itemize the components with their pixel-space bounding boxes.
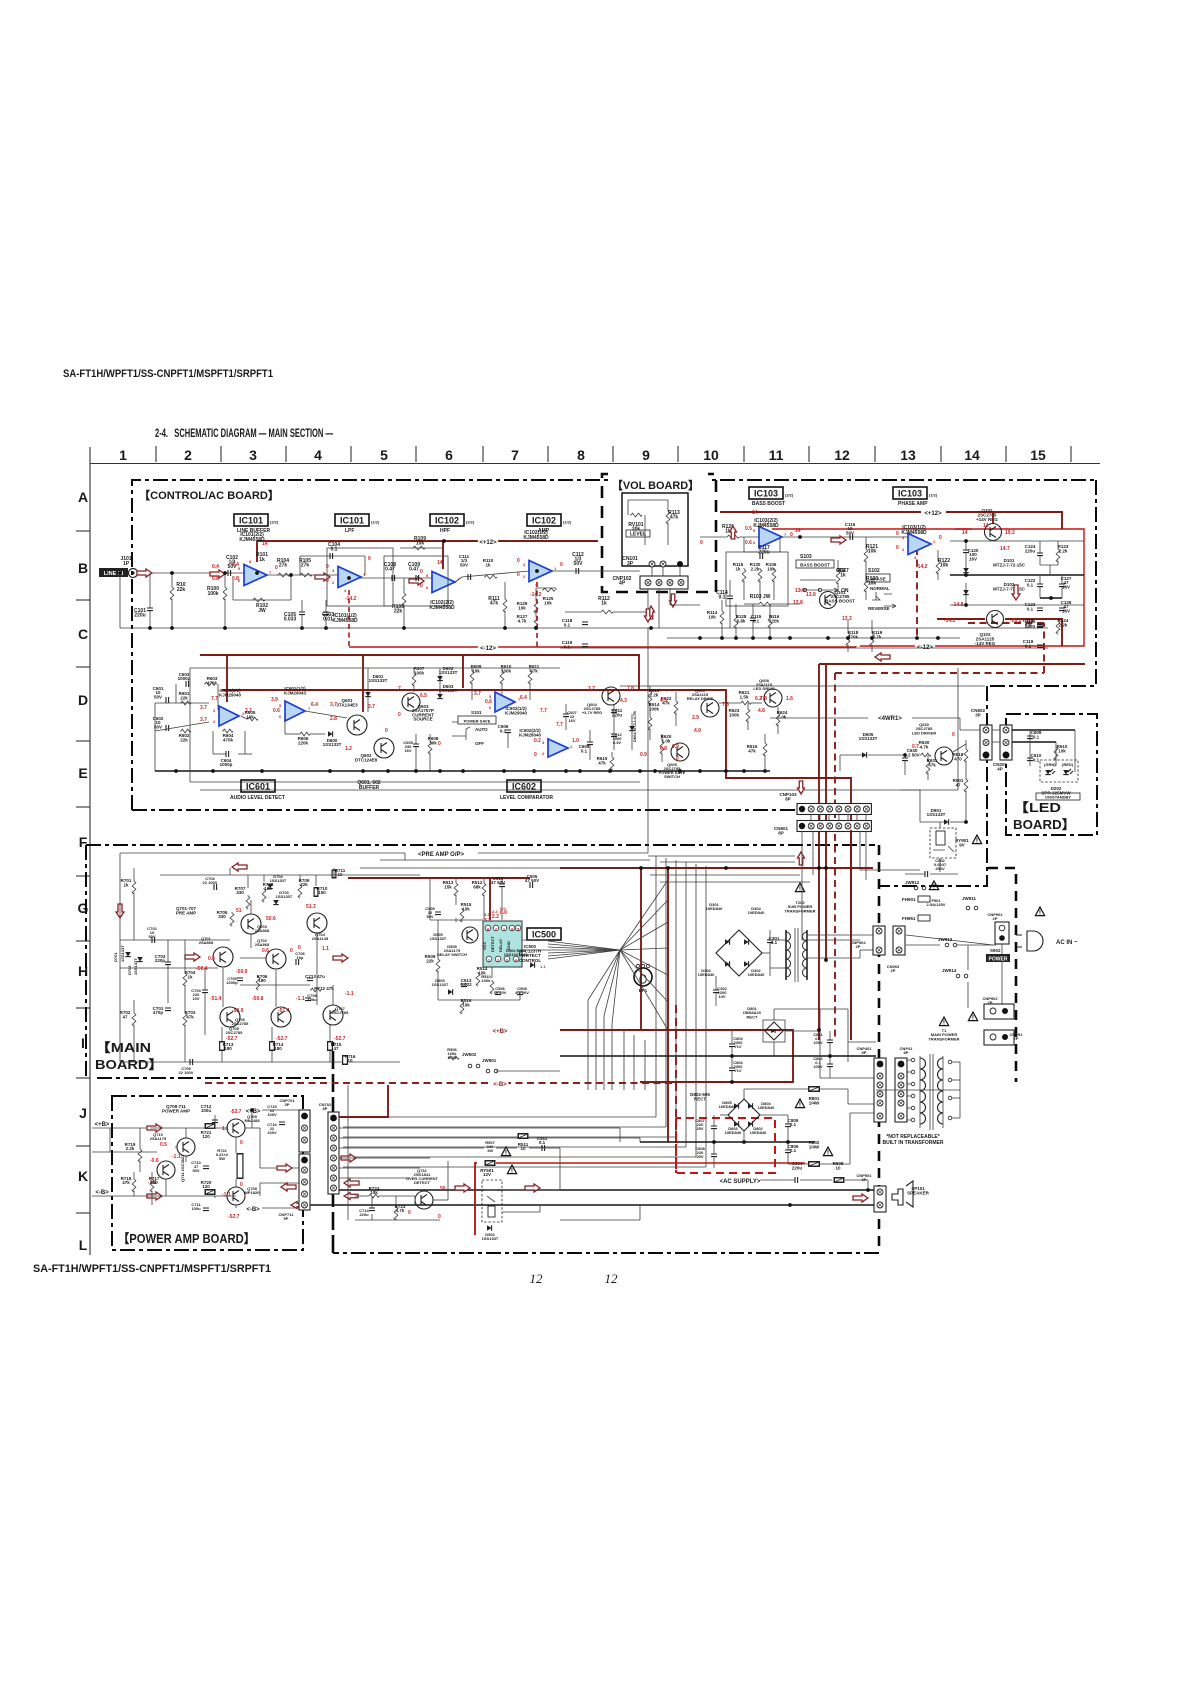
bridge rectifier D802-805 bbox=[728, 1099, 760, 1131]
svg-text:2.2k: 2.2k bbox=[1059, 622, 1068, 627]
svg-text:!: ! bbox=[505, 1150, 507, 1157]
resistor R109 bbox=[400, 547, 443, 549]
resistor R604 bbox=[222, 729, 233, 733]
svg-text:PRE AMP: PRE AMP bbox=[176, 911, 196, 916]
capacitor C607 bbox=[563, 714, 569, 717]
relay wires bbox=[939, 822, 941, 828]
op-amp IC103 1/2 bbox=[908, 534, 931, 555]
svg-text:KJM29040: KJM29040 bbox=[505, 710, 528, 715]
svg-text:0.1: 0.1 bbox=[790, 1148, 797, 1153]
svg-text:10k: 10k bbox=[462, 906, 470, 911]
svg-text:0: 0 bbox=[298, 945, 301, 951]
resistor R516 bbox=[460, 1000, 464, 1014]
ic103(1/2) label box bbox=[893, 487, 927, 499]
resistor R704 bbox=[183, 972, 187, 986]
resistor R630 bbox=[920, 753, 931, 757]
svg-text:10p: 10p bbox=[297, 955, 304, 960]
svg-text:4.8: 4.8 bbox=[758, 708, 765, 714]
svg-text:0.1: 0.1 bbox=[581, 748, 588, 753]
vol board border bbox=[602, 474, 716, 592]
svg-text:DELAY SWITCH: DELAY SWITCH bbox=[437, 952, 467, 957]
op-amp IC601 1/2 bbox=[285, 701, 305, 721]
svg-text:【VOL BOARD】: 【VOL BOARD】 bbox=[612, 479, 699, 492]
svg-text:2SC2785: 2SC2785 bbox=[232, 1021, 249, 1026]
svg-text:S103: S103 bbox=[800, 554, 812, 560]
svg-text:1/4W: 1/4W bbox=[447, 1055, 457, 1060]
svg-text:14: 14 bbox=[262, 541, 268, 547]
svg-text:1.2: 1.2 bbox=[345, 746, 352, 752]
capacitor C114 bbox=[727, 596, 733, 599]
resistor R723 bbox=[394, 1206, 398, 1220]
svg-text:LEVEL COMPARATOR: LEVEL COMPARATOR bbox=[500, 795, 553, 801]
resistor R623 bbox=[746, 708, 750, 722]
resistor R118 bbox=[846, 632, 850, 646]
svg-text:LEVEL: LEVEL bbox=[630, 532, 646, 538]
transistor Q605 power save switch bbox=[671, 743, 689, 761]
svg-text:0.1: 0.1 bbox=[753, 618, 760, 623]
svg-text:POWER SAVE: POWER SAVE bbox=[464, 719, 491, 724]
resistor R129 R127 R125 bbox=[534, 600, 538, 613]
capacitor C509 bbox=[435, 912, 441, 915]
svg-text:7: 7 bbox=[398, 686, 401, 692]
speaker SP101 bbox=[892, 1189, 903, 1205]
svg-text:100u: 100u bbox=[201, 1108, 212, 1113]
ic602 label box bbox=[507, 780, 541, 792]
transistor Q630 led driver bbox=[935, 747, 953, 765]
wire s902 bbox=[1001, 944, 1003, 954]
svg-text:2SC2785: 2SC2785 bbox=[226, 1030, 243, 1035]
svg-text:250V: 250V bbox=[935, 866, 945, 871]
arrow left -12 bbox=[875, 653, 890, 661]
svg-text:2SA868: 2SA868 bbox=[255, 942, 270, 947]
resistor R108 bbox=[402, 592, 406, 606]
svg-text:BOARD】: BOARD】 bbox=[95, 1057, 163, 1072]
svg-text:C713 47u: C713 47u bbox=[305, 974, 325, 979]
svg-text:0.47: 0.47 bbox=[385, 567, 395, 573]
wire bus supply bbox=[560, 1055, 876, 1057]
wire rows g horizontals bbox=[650, 874, 800, 876]
svg-text:BASS BOOST: BASS BOOST bbox=[825, 598, 855, 603]
transistor Q103 -14V reg bbox=[987, 611, 1004, 628]
svg-text:1SS133T: 1SS133T bbox=[430, 936, 447, 941]
capacitor C709 bbox=[190, 1059, 193, 1065]
resistor R609 bbox=[470, 670, 474, 684]
svg-text:IC601: IC601 bbox=[246, 782, 270, 792]
svg-text:1.1: 1.1 bbox=[222, 1126, 229, 1132]
zener D101 bbox=[963, 568, 969, 573]
svg-text:0.6: 0.6 bbox=[262, 948, 269, 954]
svg-text:7.7: 7.7 bbox=[556, 722, 563, 728]
svg-text:S902: S902 bbox=[990, 948, 1001, 953]
svg-text:RECT: RECT bbox=[747, 1014, 758, 1019]
svg-text:0.8: 0.8 bbox=[660, 746, 667, 752]
svg-text:4.7k: 4.7k bbox=[920, 744, 929, 749]
svg-text:-14.2: -14.2 bbox=[944, 618, 956, 624]
svg-text:0.1: 0.1 bbox=[1033, 757, 1040, 762]
op-amp IC101 1/2 bbox=[338, 567, 361, 588]
junction dots rails bbox=[666, 866, 670, 870]
svg-text:10ED840: 10ED840 bbox=[698, 972, 715, 977]
svg-text:1.6: 1.6 bbox=[786, 696, 793, 702]
svg-text:3TA134E3: 3TA134E3 bbox=[336, 702, 358, 707]
svg-text:220u: 220u bbox=[134, 613, 145, 619]
resistor R611 bbox=[528, 670, 532, 684]
connector CN903 bbox=[893, 926, 905, 955]
resistor R618 bbox=[964, 748, 968, 762]
resistor R602 bbox=[180, 729, 191, 733]
capacitor C508 bbox=[517, 992, 523, 995]
resistor R722 box bbox=[237, 1153, 244, 1179]
svg-text:RECT: RECT bbox=[694, 1097, 707, 1102]
capacitor C604 bbox=[226, 751, 229, 757]
svg-text:S101: S101 bbox=[471, 710, 482, 715]
svg-text:0.1: 0.1 bbox=[564, 622, 571, 627]
svg-text:15k: 15k bbox=[444, 884, 452, 889]
svg-text:1/4W: 1/4W bbox=[809, 1100, 820, 1105]
svg-text:AUDIO LEVEL DETECT: AUDIO LEVEL DETECT bbox=[230, 795, 285, 801]
svg-text:MP1820: MP1820 bbox=[245, 1190, 261, 1195]
svg-text:1.1: 1.1 bbox=[540, 964, 546, 969]
resistor R123 bbox=[1056, 548, 1060, 562]
svg-text:16V: 16V bbox=[969, 556, 977, 561]
resistor R706 bbox=[256, 976, 260, 990]
svg-text:0: 0 bbox=[240, 1140, 243, 1146]
capacitor C506 bbox=[495, 992, 501, 995]
svg-text:47k: 47k bbox=[598, 760, 606, 765]
ic500 chip bbox=[483, 921, 522, 967]
svg-text:0.0: 0.0 bbox=[500, 906, 506, 911]
potentiometer RV101 bbox=[630, 513, 642, 517]
wire ac chain bbox=[906, 935, 993, 945]
svg-text:<+B>: <+B> bbox=[493, 1029, 508, 1035]
svg-text:-1.1: -1.1 bbox=[222, 1192, 231, 1198]
wire cn702 col bbox=[347, 1085, 349, 1220]
transistor Q604 +3.7 reg bbox=[602, 687, 620, 705]
resistor R114 bbox=[720, 610, 724, 624]
capacitor C513 bbox=[461, 984, 467, 987]
svg-text:4P: 4P bbox=[997, 766, 1003, 771]
stage boxes bbox=[327, 548, 393, 606]
svg-text:LINE BUFFER: LINE BUFFER bbox=[237, 528, 270, 534]
svg-text:10ED840: 10ED840 bbox=[748, 972, 765, 977]
svg-text:SWITCH: SWITCH bbox=[664, 774, 680, 779]
net +B right bbox=[245, 1107, 262, 1115]
svg-text:6.8k: 6.8k bbox=[737, 618, 746, 623]
svg-text:470: 470 bbox=[954, 756, 962, 761]
svg-text:100k: 100k bbox=[482, 978, 492, 983]
svg-text:!: ! bbox=[511, 1168, 513, 1175]
signal arrow mid bbox=[831, 536, 846, 544]
svg-text:47k: 47k bbox=[928, 762, 936, 767]
bridge rectifier D301-D304 bbox=[716, 930, 762, 976]
svg-text:KJM4558D: KJM4558D bbox=[523, 535, 549, 541]
transistor Q708 bbox=[227, 1187, 245, 1205]
resistor R116 bbox=[768, 614, 772, 628]
ac supply red dashed box bbox=[676, 1005, 775, 1173]
ic101 label box bbox=[234, 514, 268, 526]
svg-text:10ED840: 10ED840 bbox=[758, 1105, 775, 1110]
led board border bbox=[1006, 714, 1097, 835]
svg-text:1SS133T 22k: 1SS133T 22k bbox=[504, 952, 529, 957]
capacitor C806 bbox=[785, 1150, 791, 1153]
svg-text:180: 180 bbox=[274, 1046, 282, 1051]
ac inlet border bbox=[988, 868, 1016, 1082]
svg-text:10k: 10k bbox=[246, 714, 254, 719]
warning triangle ac bbox=[1035, 907, 1044, 916]
op-amp IC602 1/2 bbox=[495, 692, 515, 712]
arrow left preamp bbox=[232, 863, 247, 871]
capacitor C505 bbox=[530, 882, 533, 888]
svg-text:0: 0 bbox=[896, 545, 899, 551]
svg-text:3.7: 3.7 bbox=[200, 705, 207, 711]
svg-text:12: 12 bbox=[605, 1271, 619, 1286]
connector J101 bbox=[129, 569, 138, 578]
capacitor C608 bbox=[587, 742, 593, 745]
grid column ticks bbox=[155, 446, 157, 462]
svg-text:0.1: 0.1 bbox=[500, 728, 507, 733]
svg-text:3.7: 3.7 bbox=[588, 686, 595, 692]
connector CNP711 bbox=[299, 1154, 310, 1210]
resistor R104 bbox=[277, 573, 290, 577]
svg-text:1k: 1k bbox=[123, 882, 129, 887]
resistor R112 bbox=[600, 610, 613, 614]
capacitor C103 bbox=[323, 612, 329, 615]
svg-text:RELAY DRIVE: RELAY DRIVE bbox=[687, 696, 714, 701]
svg-text:100V: 100V bbox=[813, 1040, 823, 1045]
svg-text:1.0k: 1.0k bbox=[778, 714, 787, 719]
svg-text:27k: 27k bbox=[279, 563, 288, 569]
wire net -12 row C bbox=[478, 644, 498, 652]
capacitor C102 bbox=[228, 570, 231, 576]
svg-text:0.1: 0.1 bbox=[1027, 606, 1034, 611]
arrows relay bbox=[455, 1184, 470, 1192]
svg-text:!: ! bbox=[976, 838, 978, 845]
maroon bus to power section bbox=[819, 663, 1085, 665]
capacitor C803 bbox=[729, 1044, 735, 1047]
resistor R724 bbox=[368, 1194, 379, 1198]
svg-text:Q711 2SC3823: Q711 2SC3823 bbox=[180, 1154, 185, 1182]
svg-text:16V: 16V bbox=[1062, 608, 1070, 613]
wire t2 out bbox=[360, 577, 432, 579]
resistor R615 bbox=[610, 756, 614, 770]
transformer pins bbox=[911, 1058, 915, 1062]
svg-text:2SA868: 2SA868 bbox=[199, 940, 214, 945]
svg-text:JW911: JW911 bbox=[962, 896, 977, 901]
resistor R708 bbox=[262, 888, 266, 902]
arrow down left bbox=[116, 904, 124, 918]
svg-text:!: ! bbox=[972, 1015, 974, 1022]
svg-text:7.7: 7.7 bbox=[211, 696, 218, 702]
resistor R608 bbox=[428, 740, 432, 754]
arrow speaker bbox=[853, 1194, 868, 1202]
resistor R128 bbox=[734, 614, 738, 628]
svg-text:LPF: LPF bbox=[345, 528, 354, 534]
diode D901 wire bbox=[965, 800, 967, 822]
svg-text:0: 0 bbox=[398, 712, 401, 718]
arrow up vol bbox=[730, 526, 737, 539]
svg-text:0.1: 0.1 bbox=[1025, 643, 1032, 648]
svg-text:0: 0 bbox=[534, 752, 537, 758]
svg-text:0: 0 bbox=[240, 1182, 243, 1188]
svg-text:22k: 22k bbox=[177, 587, 186, 593]
svg-text:ON/STANDBY: ON/STANDBY bbox=[1045, 795, 1071, 800]
svg-text:14.7: 14.7 bbox=[1000, 546, 1010, 552]
svg-text:0: 0 bbox=[952, 732, 955, 738]
resistor R513 bbox=[454, 882, 458, 896]
svg-text:【POWER AMP BOARD】: 【POWER AMP BOARD】 bbox=[118, 1231, 255, 1246]
resistor R117 bbox=[836, 570, 840, 584]
svg-text:50V: 50V bbox=[148, 934, 155, 939]
svg-text:10k: 10k bbox=[370, 1190, 378, 1195]
svg-text:2P: 2P bbox=[891, 968, 896, 973]
svg-text:1P: 1P bbox=[123, 561, 130, 567]
maroon row D supply rail bbox=[200, 655, 639, 690]
power amp wires bbox=[150, 1127, 227, 1129]
svg-text:220k: 220k bbox=[769, 618, 780, 623]
resistor R605 bbox=[247, 717, 258, 721]
svg-text:3.7: 3.7 bbox=[330, 702, 337, 708]
capacitor C706 bbox=[296, 959, 299, 965]
svg-text:10k: 10k bbox=[708, 614, 716, 619]
svg-text:-20.1: -20.1 bbox=[1010, 618, 1022, 624]
svg-text:10: 10 bbox=[520, 1146, 526, 1151]
capacitor C612 bbox=[611, 734, 617, 737]
wire t3 out bbox=[455, 577, 462, 582]
svg-text:POWER: POWER bbox=[989, 957, 1008, 963]
svg-text:<-12>: <-12> bbox=[480, 646, 496, 652]
capacitor C109 bbox=[416, 575, 419, 581]
svg-text:13.8: 13.8 bbox=[806, 592, 816, 598]
svg-text:【CONTROL/AC BOARD】: 【CONTROL/AC BOARD】 bbox=[139, 489, 279, 502]
maroon q102 wires bbox=[992, 512, 994, 523]
svg-text:1k: 1k bbox=[840, 573, 846, 579]
svg-text:-51.4: -51.4 bbox=[210, 996, 222, 1002]
capacitor C704 bbox=[214, 884, 217, 890]
resistor R121 bbox=[864, 548, 868, 562]
svg-text:3.9: 3.9 bbox=[271, 697, 278, 703]
svg-text:11: 11 bbox=[769, 447, 784, 463]
svg-text:IC103: IC103 bbox=[754, 489, 778, 499]
svg-text:22k: 22k bbox=[426, 958, 434, 963]
capacitor C630 bbox=[902, 758, 908, 761]
svg-text:0.6: 0.6 bbox=[485, 699, 492, 705]
capacitor C714 bbox=[369, 1208, 375, 1211]
svg-text:100u: 100u bbox=[307, 997, 317, 1002]
svg-text:0.1: 0.1 bbox=[1027, 582, 1034, 587]
wire row D frame bbox=[155, 702, 209, 704]
svg-text:100u: 100u bbox=[191, 1206, 201, 1211]
wire extra verticals bbox=[623, 1030, 625, 1090]
resistor R122 bbox=[936, 560, 940, 574]
capacitor C111 bbox=[468, 574, 471, 580]
svg-text:0: 0 bbox=[385, 728, 388, 734]
svg-text:71V: 71V bbox=[734, 1044, 741, 1049]
svg-text:C: C bbox=[78, 626, 88, 642]
resistor R709 bbox=[298, 884, 302, 898]
svg-text:47: 47 bbox=[333, 1046, 339, 1051]
svg-text:JW913: JW913 bbox=[938, 937, 953, 942]
ic500 wires bbox=[455, 918, 457, 922]
svg-text:0.1: 0.1 bbox=[564, 644, 571, 649]
svg-text:7.8: 7.8 bbox=[627, 686, 634, 692]
svg-text:1: 1 bbox=[119, 447, 127, 463]
svg-text:5: 5 bbox=[380, 447, 388, 463]
capacitor C112 bbox=[576, 568, 579, 574]
svg-text:0: 0 bbox=[438, 1214, 441, 1220]
svg-text:IC102: IC102 bbox=[435, 516, 459, 526]
svg-text:(2/2): (2/2) bbox=[466, 520, 475, 525]
svg-text:14: 14 bbox=[752, 510, 758, 516]
svg-text:-14.2: -14.2 bbox=[345, 596, 357, 602]
svg-text:-51.4: -51.4 bbox=[278, 1008, 290, 1014]
capacitor C801 bbox=[827, 1040, 833, 1043]
svg-text:OFF: OFF bbox=[475, 741, 484, 746]
resistor R510 bbox=[490, 980, 494, 994]
capacitor C808 bbox=[711, 1154, 717, 1157]
svg-text:22k: 22k bbox=[394, 609, 403, 615]
svg-text:RELAY: RELAY bbox=[498, 938, 503, 952]
svg-text:0.1: 0.1 bbox=[1033, 734, 1040, 739]
svg-text:3.3: 3.3 bbox=[484, 912, 490, 917]
svg-text:IC602: IC602 bbox=[512, 782, 536, 792]
resistor R717 bbox=[150, 1178, 154, 1192]
svg-text:0.01: 0.01 bbox=[323, 617, 333, 623]
op-amp IC102 1/2 bbox=[529, 561, 552, 582]
svg-text:<-B>: <-B> bbox=[95, 1190, 109, 1196]
transistor Q505 delay switch bbox=[462, 927, 478, 943]
maroon q604 rail bbox=[222, 690, 851, 1040]
wire vol links bbox=[651, 567, 653, 576]
svg-text:100V: 100V bbox=[813, 1064, 823, 1069]
svg-text:10k: 10k bbox=[544, 600, 552, 605]
svg-text:1SS133T: 1SS133T bbox=[439, 688, 458, 693]
svg-text:220u: 220u bbox=[1025, 623, 1036, 628]
svg-text:S102: S102 bbox=[868, 568, 880, 574]
wire d801 box bbox=[774, 1008, 848, 1010]
svg-text:100V: 100V bbox=[267, 1130, 277, 1135]
arrow preamp in bbox=[185, 953, 200, 961]
op-amp IC102 2/2 bbox=[432, 572, 455, 593]
capacitor C711 bbox=[203, 1208, 209, 1211]
capacitor C116 bbox=[850, 534, 853, 540]
wires preamp to bundle bbox=[360, 867, 655, 869]
svg-text:-52.7: -52.7 bbox=[228, 1214, 240, 1220]
svg-text:2.2k: 2.2k bbox=[1059, 548, 1068, 553]
svg-text:!: ! bbox=[1039, 910, 1041, 917]
svg-text:14: 14 bbox=[964, 447, 980, 463]
svg-text:50V: 50V bbox=[846, 530, 854, 535]
svg-text:25V: 25V bbox=[696, 1154, 703, 1159]
svg-text:-0.6: -0.6 bbox=[150, 1158, 159, 1164]
svg-text:0.7: 0.7 bbox=[912, 744, 919, 750]
svg-text:!: ! bbox=[827, 1150, 829, 1157]
svg-text:220u: 220u bbox=[792, 1165, 803, 1170]
svg-text:22k: 22k bbox=[300, 882, 308, 887]
speaker bus bbox=[339, 1189, 874, 1191]
component EP1 bbox=[634, 968, 652, 986]
svg-text:KJM4558D: KJM4558D bbox=[332, 618, 358, 624]
svg-text:14: 14 bbox=[795, 528, 801, 534]
svg-text:D701: D701 bbox=[113, 952, 118, 962]
svg-text:50V: 50V bbox=[426, 914, 433, 919]
relay RY901 bbox=[930, 828, 956, 858]
svg-text:0: 0 bbox=[326, 578, 329, 584]
connector CNP102 bbox=[640, 576, 688, 589]
svg-text:<+12>: <+12> bbox=[924, 511, 942, 517]
svg-text:470p: 470p bbox=[153, 1010, 164, 1015]
maroon +12 rail bbox=[720, 511, 921, 513]
svg-text:0: 0 bbox=[326, 564, 329, 570]
